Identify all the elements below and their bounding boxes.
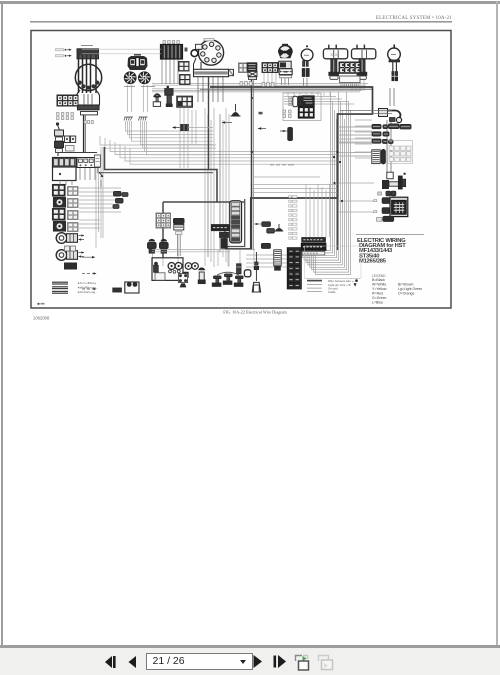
connector grid E bold: [298, 107, 314, 118]
wire strip feeds: [252, 177, 337, 237]
junction dots: [333, 151, 343, 202]
arrow mark: [99, 172, 103, 187]
dashed arrow c: [82, 288, 97, 291]
svg-text:Cable: Cable: [328, 290, 336, 294]
toolbar next page button: [252, 654, 263, 669]
window border bottom: [0, 645, 500, 648]
switch housing left: [323, 45, 347, 59]
corner mark: [37, 303, 44, 305]
headlamp bulb 2: [54, 222, 66, 232]
legend bars: [52, 282, 68, 293]
caption: [223, 310, 287, 315]
svg-text:L=Blue: L=Blue: [372, 301, 383, 305]
headlamp bulb 1: [54, 198, 66, 208]
connector strip D2: [340, 76, 360, 86]
svg-text:1062008: 1062008: [33, 316, 50, 321]
svg-text:◄Wht/Blk+turn...: ◄Wht/Blk+turn...: [77, 286, 98, 290]
connector grid D: [339, 62, 361, 73]
svg-text:Lg=Light Green: Lg=Light Green: [398, 287, 422, 291]
svg-text:B=Black: B=Black: [372, 278, 385, 282]
regulator stack: [247, 63, 257, 80]
connector grid B: [180, 75, 191, 85]
main harness dark pair: [98, 147, 245, 258]
valve manifold: [217, 272, 239, 275]
toolbar page number box: [146, 653, 253, 670]
window border top: [0, 1, 500, 4]
ground umbrella: [275, 224, 284, 232]
pin number labels: [57, 113, 74, 120]
svg-text:Y=Yellow: Y=Yellow: [372, 287, 387, 291]
fan motor right: [138, 71, 151, 84]
socket block: [178, 274, 187, 288]
pin marks top: [163, 39, 214, 44]
solenoid small: [198, 267, 205, 283]
wire left column links: [79, 147, 121, 238]
gauge light pair: [168, 263, 182, 274]
relay pair small: [65, 136, 76, 151]
connector grid G: [262, 63, 278, 73]
svg-text:FIG. 10A-22 Electrical Wire Di: FIG. 10A-22 Electrical Wire Diagram: [223, 310, 287, 315]
alternator: [278, 44, 293, 77]
dashed arrow a: [82, 256, 95, 259]
switch legs left: [329, 59, 339, 80]
fuse box: [82, 45, 188, 60]
wire drops from top components: [128, 59, 308, 112]
oil switch stack: [55, 122, 64, 152]
connector grid H: [156, 213, 171, 228]
wire fan left-middle: [126, 121, 214, 155]
toolbar first page button: [103, 655, 118, 669]
legend labels: [77, 281, 98, 294]
switch housing right: [352, 45, 376, 59]
title block: [357, 238, 406, 265]
pin stack central: [283, 96, 292, 117]
svg-text:G=Green: G=Green: [372, 296, 387, 300]
junction box: [95, 155, 101, 167]
switch legs right: [357, 59, 367, 80]
pin cluster mid: [124, 117, 148, 121]
sensor mushroom: [153, 94, 160, 106]
dash label: [270, 164, 294, 166]
headlamp connector 1: [53, 185, 66, 197]
wiper motor 1: [148, 239, 157, 253]
wire feeds central cluster: [284, 97, 372, 159]
toolbar last page button: [272, 654, 287, 669]
wire midfield extras: [152, 108, 255, 252]
plug cluster bottom: [255, 222, 275, 249]
connector dark mid: [211, 225, 229, 249]
starter solenoid: [382, 172, 406, 189]
pin labels top-left: [56, 49, 72, 57]
regulator feed pair: [251, 80, 253, 251]
line legend: [305, 278, 360, 294]
wire central vertical bundle: [205, 108, 229, 267]
flasher unit: [113, 282, 139, 293]
distributor flange: [194, 69, 234, 76]
wiper motor 2: [160, 239, 169, 253]
terminal strips dark: [301, 238, 325, 255]
svg-text:◄Turn off/Grey: ◄Turn off/Grey: [77, 281, 97, 285]
relay box dark: [374, 197, 408, 221]
battery: [53, 158, 77, 181]
svg-text:O=Orange: O=Orange: [398, 292, 414, 296]
fan motor left: [124, 71, 137, 84]
connector elongated: [258, 112, 292, 141]
tick labels mid: [84, 121, 93, 124]
sensor tall: [165, 86, 173, 107]
terminal table light: [388, 141, 413, 164]
connector grid A: [179, 62, 190, 72]
wire right field links: [338, 111, 392, 157]
label grids left stack: [68, 187, 79, 232]
wire horizontal bus upper: [152, 84, 368, 92]
valve 3: [234, 276, 243, 286]
fan labels: [124, 85, 155, 87]
staircase box: [305, 246, 362, 278]
wire bundle battery to center: [100, 136, 337, 164]
instrument panel: [128, 55, 148, 70]
plug pair: [378, 191, 396, 196]
svg-text:M1265/285: M1265/285: [359, 258, 387, 264]
ignition switch assembly: [75, 49, 101, 152]
window border right: [496, 1, 498, 647]
valve stack: [237, 264, 251, 277]
fuel gauge: [388, 45, 401, 81]
relay mid: [173, 125, 214, 131]
fuel sender: [252, 252, 260, 292]
dashed arrow b: [82, 272, 97, 275]
header rule: [30, 21, 452, 23]
resistor block: [372, 150, 386, 164]
wire right bundle staircase: [297, 80, 375, 275]
fuse strip: [58, 153, 100, 168]
wire bus to cluster drops: [288, 92, 330, 97]
wire gauge legs: [387, 61, 396, 178]
toolbar previous page button: [127, 655, 137, 669]
lamp pair 2: [185, 263, 198, 270]
header text ELECTRICAL SYSTEM 10A-21: [376, 16, 452, 21]
terminal column tall: [287, 248, 301, 289]
plug rows right: [372, 124, 411, 143]
window border left: [1, 1, 3, 647]
svg-text:Br=Brown: Br=Brown: [398, 283, 414, 287]
color legend: [372, 274, 422, 305]
toolbar snapshot icon: [294, 653, 311, 671]
column switch: [379, 109, 402, 123]
toolbar: [0, 648, 500, 675]
central feed dark: [200, 77, 372, 170]
connector block ignition: [57, 95, 78, 106]
horn connectors: [65, 246, 77, 269]
svg-text:W=White: W=White: [372, 283, 386, 287]
central cluster connectors: [283, 93, 321, 121]
pin label column: [289, 196, 297, 240]
doc number: [33, 316, 50, 321]
wire left verticals: [60, 168, 99, 248]
svg-text:LEGEND: LEGEND: [372, 274, 386, 278]
resistor ladder: [274, 250, 281, 270]
schematic frame: [31, 31, 451, 309]
fuse holder mid: [174, 219, 185, 257]
connector grid C: [177, 96, 193, 107]
valve 2: [223, 274, 232, 284]
title rule: [356, 234, 424, 236]
connector grid F: [239, 63, 248, 73]
svg-text:◄Grn/turn+sig...: ◄Grn/turn+sig...: [77, 290, 98, 294]
headlamp connector 2: [53, 209, 66, 221]
sub-circuit box: [152, 258, 188, 281]
ignition label: [81, 45, 93, 47]
condenser: [231, 104, 241, 116]
ignition column wires: [84, 94, 92, 105]
valve 1: [212, 276, 221, 286]
plugs left column: [113, 192, 128, 209]
wire bottom links: [153, 250, 301, 267]
horn 2: [56, 250, 84, 261]
pin ticks mid-top: [240, 82, 274, 87]
horn 1: [56, 233, 84, 244]
main harness right loop: [210, 87, 373, 250]
svg-text:R=Red: R=Red: [372, 292, 383, 296]
svg-text:ELECTRICAL SYSTEM • 10A-21: ELECTRICAL SYSTEM • 10A-21: [376, 16, 452, 21]
toolbar copy icon disabled: [317, 653, 335, 671]
terminal strip mid: [230, 201, 242, 243]
hour meter: [301, 45, 313, 76]
distributor cap: [191, 40, 223, 69]
